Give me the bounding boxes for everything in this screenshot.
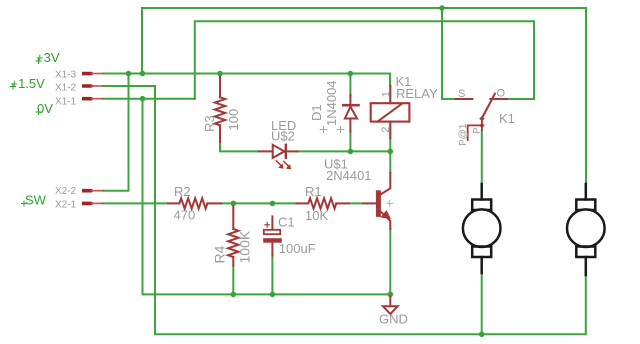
svg-text:100uF: 100uF bbox=[279, 241, 316, 256]
svg-text:X1-3: X1-3 bbox=[55, 70, 77, 81]
wire relay pin2 to node bbox=[389, 138, 391, 151]
svg-text:X2-2: X2-2 bbox=[55, 186, 77, 197]
resistor R1 bbox=[297, 198, 349, 208]
connector pin X1-2 bbox=[82, 84, 103, 88]
label origin cross D1 bbox=[320, 126, 327, 133]
wire X2-2 up to +3V bbox=[103, 74, 129, 191]
wire emitter to ground bbox=[389, 229, 391, 294]
svg-text:P: P bbox=[472, 127, 483, 134]
svg-text:X2-1: X2-1 bbox=[55, 200, 77, 211]
svg-text:100: 100 bbox=[226, 109, 241, 131]
motor M2 bbox=[567, 184, 605, 275]
wire top outer rail +3V to motors bbox=[142, 8, 586, 184]
svg-text:P@1: P@1 bbox=[458, 123, 469, 146]
node junction C1 top bbox=[270, 201, 276, 207]
wire net X1-2 +1.5V down to bottom rail bbox=[103, 86, 586, 334]
relay K1 coil bbox=[371, 86, 410, 138]
wire ground rail from X1-1 bbox=[143, 99, 391, 295]
node junction C1 bottom bbox=[270, 292, 276, 298]
svg-text:R3: R3 bbox=[202, 115, 217, 132]
node junction motor1 bottom bbox=[479, 332, 485, 338]
wire X2-1 to R2 bbox=[103, 202, 168, 204]
wire LED to relay bottom node bbox=[298, 150, 391, 152]
switch K1 P terminal bbox=[479, 123, 484, 128]
node junction switch S branch bbox=[439, 5, 445, 11]
motor M1 bbox=[463, 184, 501, 273]
resistor R4 bbox=[228, 206, 238, 266]
node junction R4 bottom bbox=[231, 292, 237, 298]
svg-text:SW: SW bbox=[25, 193, 47, 208]
ground symbol GND bbox=[383, 297, 398, 314]
label +3V bbox=[36, 50, 60, 65]
wire motor1 bottom to rail bbox=[481, 273, 483, 334]
svg-text:+1.5V: +1.5V bbox=[11, 76, 46, 91]
svg-text:X1-2: X1-2 bbox=[55, 83, 77, 94]
wire R1 to base gap bbox=[349, 202, 364, 204]
node junction D1 top bbox=[348, 71, 354, 77]
diode D1 bbox=[343, 95, 358, 132]
LED arrows heads bbox=[278, 164, 283, 169]
svg-text:R2: R2 bbox=[174, 184, 191, 199]
svg-text:1: 1 bbox=[380, 91, 392, 97]
resistor R2 bbox=[168, 198, 221, 208]
wire R3 bottom to LED node bbox=[220, 142, 259, 151]
node junction R3 top bbox=[217, 71, 223, 77]
switch K1 lever bbox=[482, 94, 495, 119]
svg-text:1N4004: 1N4004 bbox=[324, 80, 339, 126]
svg-text:D1: D1 bbox=[309, 104, 324, 121]
svg-text:R4: R4 bbox=[212, 245, 228, 263]
connector pin X2-1 bbox=[82, 202, 103, 206]
LED U$2 bbox=[259, 145, 298, 166]
svg-text:2N4401: 2N4401 bbox=[326, 168, 372, 183]
wire net X1-1 0V row bbox=[103, 98, 195, 100]
svg-text:+3V: +3V bbox=[36, 50, 60, 65]
svg-text:C1: C1 bbox=[278, 215, 295, 230]
node junction relay pin2 collector bbox=[388, 149, 394, 155]
wire branch from top rail to switch S bbox=[442, 8, 456, 99]
node junction D1 bottom bbox=[348, 149, 354, 155]
connector pin X2-2 bbox=[82, 189, 103, 193]
switch K1 P bracket bbox=[468, 125, 482, 140]
svg-text:470: 470 bbox=[174, 208, 196, 223]
node junction top rail drop bbox=[140, 71, 146, 77]
svg-text:GND: GND bbox=[379, 312, 408, 327]
wire C1 bottom lead bbox=[271, 256, 273, 295]
svg-text:2: 2 bbox=[380, 127, 392, 133]
svg-text:10K: 10K bbox=[305, 208, 328, 223]
switch K1 pivot arrow bbox=[479, 116, 484, 121]
svg-text:S: S bbox=[458, 88, 465, 100]
node junction emitter GND bbox=[388, 292, 394, 298]
node junction X2-2/+3V bbox=[126, 71, 132, 77]
connector pin X1-3 bbox=[82, 72, 103, 76]
svg-text:K1: K1 bbox=[499, 111, 515, 126]
connector pin X1-1 bbox=[82, 97, 103, 101]
svg-text:RELAY: RELAY bbox=[396, 86, 438, 101]
switch K1 contact O circle bbox=[491, 98, 508, 100]
wire R2 to R1 through R4 C1 nodes bbox=[221, 202, 297, 204]
label SW bbox=[22, 193, 47, 208]
switch K1 contact S bbox=[456, 98, 473, 100]
capacitor C1 bbox=[263, 216, 282, 255]
svg-text:0V: 0V bbox=[37, 101, 53, 116]
wire D1 bottom lead bbox=[349, 132, 351, 152]
label +1.5V bbox=[11, 76, 46, 91]
svg-text:U$2: U$2 bbox=[271, 129, 295, 144]
svg-text:R1: R1 bbox=[305, 184, 322, 199]
wire switch P to motor1 bbox=[481, 131, 483, 185]
svg-text:X1-1: X1-1 bbox=[55, 97, 77, 108]
transistor origin cross bbox=[387, 200, 393, 206]
resistor R3 bbox=[215, 77, 225, 143]
transistor U$1 2N4401 bbox=[363, 173, 390, 229]
wire top inner rail 0V to switch O bbox=[195, 21, 534, 99]
node junction R2 R4 bbox=[231, 201, 237, 207]
wire node to collector bbox=[389, 151, 391, 173]
label origin cross 1N4004 bbox=[337, 126, 344, 133]
svg-text:O: O bbox=[497, 88, 506, 100]
wire R4 bottom lead bbox=[232, 266, 234, 295]
wire D1 top lead bbox=[349, 74, 351, 96]
svg-text:100K: 100K bbox=[237, 230, 253, 263]
label 0V bbox=[36, 101, 53, 116]
wire net +3V X1-3 row bbox=[103, 74, 390, 87]
node junction X1-1 ground bbox=[140, 96, 146, 102]
